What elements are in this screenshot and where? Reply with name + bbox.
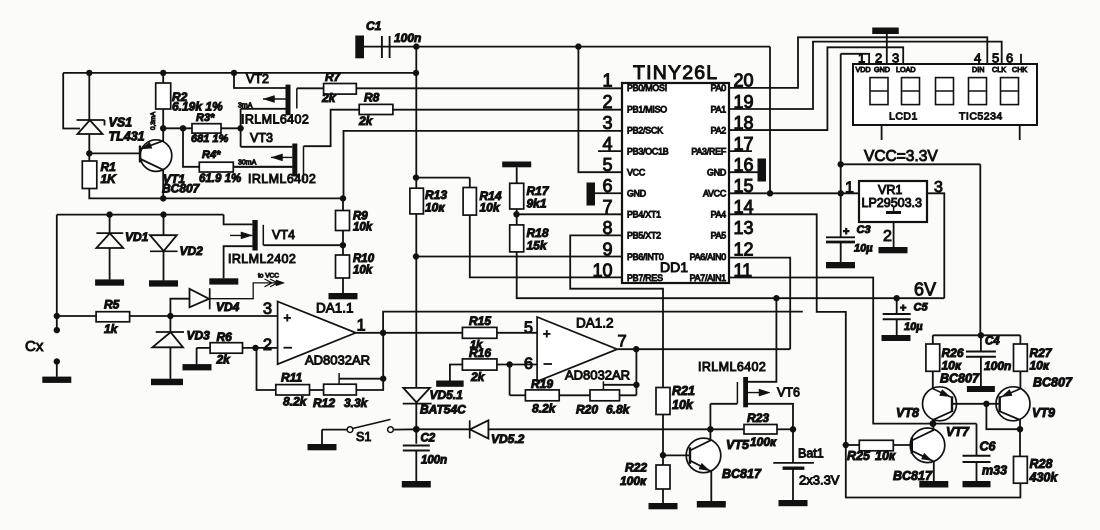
svg-text:9: 9 [602, 239, 612, 259]
svg-text:10к: 10к [875, 449, 896, 463]
svg-text:R25: R25 [847, 449, 871, 463]
svg-text:+: + [900, 303, 906, 315]
svg-text:VD5.1: VD5.1 [430, 388, 464, 402]
svg-text:VD5.2: VD5.2 [491, 432, 525, 446]
svg-text:PB0/MOSI: PB0/MOSI [627, 83, 667, 93]
svg-text:1k: 1k [104, 322, 119, 336]
svg-text:R22: R22 [625, 461, 647, 475]
svg-text:2x3.3V: 2x3.3V [799, 473, 840, 488]
svg-text:VDD: VDD [856, 65, 871, 74]
svg-text:2: 2 [263, 336, 272, 354]
svg-text:IRLML2402: IRLML2402 [228, 252, 296, 266]
svg-text:VT6: VT6 [777, 386, 800, 400]
svg-text:PB1/MISO: PB1/MISO [627, 104, 667, 114]
svg-text:VT8: VT8 [896, 406, 919, 420]
svg-text:VD3: VD3 [187, 329, 211, 343]
svg-text:C6: C6 [980, 440, 997, 454]
svg-text:10µ: 10µ [854, 243, 873, 255]
svg-text:100к: 100к [750, 435, 777, 449]
svg-text:VCC: VCC [627, 167, 646, 177]
svg-text:2k: 2k [321, 91, 337, 105]
svg-text:CLK: CLK [992, 65, 1006, 74]
svg-text:Cx: Cx [25, 338, 44, 355]
svg-text:VCC=3.3V: VCC=3.3V [864, 148, 938, 165]
svg-text:VS1: VS1 [109, 116, 133, 130]
svg-text:1: 1 [858, 51, 865, 66]
svg-text:C5: C5 [914, 302, 929, 314]
svg-text:Bat1: Bat1 [798, 447, 824, 461]
svg-text:VT9: VT9 [1032, 406, 1055, 420]
svg-text:30mA: 30mA [238, 160, 257, 167]
svg-text:R15: R15 [469, 314, 491, 328]
svg-text:R3*: R3* [196, 112, 215, 124]
svg-text:C3: C3 [857, 224, 871, 236]
svg-text:1: 1 [602, 71, 612, 91]
svg-text:+: + [843, 226, 849, 238]
svg-text:DIN: DIN [972, 65, 984, 74]
svg-text:10k: 10k [353, 265, 373, 277]
svg-text:2k: 2k [358, 114, 374, 128]
svg-text:LCD1: LCD1 [889, 111, 918, 123]
svg-text:2: 2 [602, 92, 612, 112]
svg-text:+: + [284, 310, 292, 325]
svg-text:PA7/AIN1: PA7/AIN1 [690, 273, 727, 283]
svg-text:8.2k: 8.2k [532, 402, 557, 416]
svg-text:TINY26L: TINY26L [633, 62, 718, 84]
svg-text:VD4: VD4 [216, 300, 240, 314]
svg-text:C4: C4 [985, 336, 1000, 348]
svg-text:3: 3 [602, 113, 612, 133]
svg-text:LP29503.3: LP29503.3 [862, 196, 923, 210]
svg-text:BC817: BC817 [893, 469, 933, 483]
svg-text:PA4: PA4 [711, 210, 727, 220]
svg-text:TIC5234: TIC5234 [959, 111, 1003, 123]
svg-text:VT7: VT7 [946, 425, 970, 439]
svg-text:6.8k: 6.8k [606, 403, 631, 417]
svg-text:DD1: DD1 [660, 259, 688, 275]
svg-text:TL431: TL431 [109, 130, 145, 144]
svg-text:VT5: VT5 [726, 438, 750, 452]
svg-text:IRLML6402: IRLML6402 [241, 113, 309, 127]
svg-text:100n: 100n [421, 455, 447, 467]
svg-text:BC807: BC807 [162, 182, 201, 196]
svg-text:CHK: CHK [1012, 65, 1027, 74]
svg-text:AVCC: AVCC [703, 189, 727, 199]
svg-text:R8: R8 [364, 91, 380, 105]
svg-text:10µ: 10µ [904, 321, 923, 333]
svg-text:PB4/XT1: PB4/XT1 [627, 210, 661, 220]
svg-text:BC817: BC817 [722, 467, 762, 481]
svg-text:100к: 100к [620, 474, 647, 488]
svg-text:10: 10 [592, 260, 612, 280]
svg-text:1: 1 [357, 317, 366, 335]
svg-text:m33: m33 [982, 464, 1007, 478]
svg-text:8.2k: 8.2k [283, 395, 308, 409]
svg-text:681 1%: 681 1% [191, 133, 229, 145]
svg-text:PB7/RES: PB7/RES [627, 273, 663, 283]
svg-text:+: + [543, 326, 551, 341]
svg-text:PB3/OC1B: PB3/OC1B [627, 146, 669, 156]
svg-text:8: 8 [602, 218, 612, 238]
svg-text:430k: 430k [1029, 471, 1059, 485]
svg-text:15k: 15k [527, 239, 548, 253]
svg-text:3mA: 3mA [238, 103, 253, 110]
svg-text:GND: GND [627, 189, 646, 199]
svg-text:R12: R12 [313, 396, 335, 410]
svg-text:R23: R23 [747, 411, 769, 425]
svg-text:R5: R5 [104, 298, 120, 312]
svg-text:10k: 10k [672, 398, 694, 412]
svg-text:GND: GND [707, 167, 726, 177]
svg-text:VR1: VR1 [878, 183, 902, 197]
svg-text:100n: 100n [394, 31, 421, 45]
svg-text:100n: 100n [984, 359, 1011, 373]
svg-text:2k: 2k [216, 353, 232, 367]
svg-text:VT2: VT2 [246, 72, 269, 86]
svg-text:IRLML6402: IRLML6402 [698, 360, 766, 374]
svg-text:4: 4 [974, 51, 981, 66]
svg-text:R6: R6 [217, 330, 233, 344]
svg-text:PA1: PA1 [711, 104, 727, 114]
svg-text:PA6/AIN0: PA6/AIN0 [690, 252, 727, 262]
svg-text:GND: GND [874, 65, 890, 74]
svg-text:7: 7 [602, 197, 612, 217]
svg-text:R21: R21 [672, 384, 695, 398]
svg-text:VT3: VT3 [250, 131, 273, 145]
svg-text:VT4: VT4 [272, 228, 295, 242]
svg-text:VD1: VD1 [125, 230, 149, 244]
svg-text:1: 1 [845, 180, 854, 197]
svg-text:2: 2 [883, 228, 892, 245]
svg-text:R28: R28 [1030, 457, 1053, 471]
svg-text:R11: R11 [281, 371, 302, 385]
svg-text:AD8032AR: AD8032AR [305, 353, 370, 368]
svg-text:2k: 2k [470, 370, 486, 384]
svg-text:R7: R7 [325, 70, 342, 84]
svg-text:3: 3 [263, 300, 272, 318]
svg-text:3: 3 [892, 51, 899, 66]
svg-text:61.9 1%: 61.9 1% [199, 173, 241, 185]
svg-text:PB6/INT0: PB6/INT0 [627, 252, 664, 262]
svg-text:12: 12 [734, 239, 754, 259]
svg-text:PA0: PA0 [711, 83, 727, 93]
svg-text:10к: 10к [942, 359, 962, 373]
svg-text:6: 6 [524, 355, 533, 373]
svg-text:R20: R20 [576, 403, 598, 417]
svg-text:BC807: BC807 [1033, 376, 1073, 390]
svg-text:10к: 10к [425, 201, 445, 215]
svg-text:10к: 10к [1030, 359, 1050, 373]
svg-text:1K: 1K [101, 172, 118, 186]
svg-text:5: 5 [524, 319, 533, 337]
svg-text:6V: 6V [914, 280, 936, 300]
svg-text:R19: R19 [531, 377, 553, 391]
svg-text:9k1: 9k1 [527, 197, 547, 211]
svg-text:AD8032AR: AD8032AR [565, 368, 630, 383]
svg-text:10k: 10k [480, 201, 501, 215]
svg-text:BAT54C: BAT54C [420, 403, 466, 417]
svg-text:PA2: PA2 [711, 125, 727, 135]
svg-text:DA1.1: DA1.1 [316, 301, 354, 316]
svg-text:3.3k: 3.3k [344, 396, 369, 410]
svg-text:DA1.2: DA1.2 [576, 316, 614, 331]
svg-text:13: 13 [734, 218, 754, 238]
svg-text:6: 6 [1006, 51, 1013, 66]
svg-text:R16: R16 [469, 346, 491, 360]
svg-text:7: 7 [618, 333, 627, 351]
svg-text:PA3/REF: PA3/REF [691, 146, 726, 156]
svg-text:S1: S1 [356, 430, 371, 444]
svg-text:2: 2 [875, 51, 882, 66]
svg-text:C2: C2 [421, 433, 436, 445]
svg-text:PA5: PA5 [711, 231, 727, 241]
svg-text:R4*: R4* [202, 149, 221, 161]
svg-text:PB2/SCK: PB2/SCK [627, 125, 663, 135]
svg-text:C1: C1 [366, 19, 382, 33]
svg-text:LOAD: LOAD [896, 65, 916, 74]
svg-text:10k: 10k [353, 222, 373, 234]
svg-text:5: 5 [992, 51, 999, 66]
svg-text:to VCC: to VCC [258, 273, 279, 280]
svg-text:R10: R10 [353, 253, 375, 265]
svg-text:BC807: BC807 [940, 372, 980, 386]
svg-text:0,3mA: 0,3mA [150, 111, 157, 130]
svg-text:IRLML6402: IRLML6402 [248, 172, 316, 186]
svg-text:VD2: VD2 [180, 244, 204, 258]
svg-text:PB5/XT2: PB5/XT2 [627, 231, 661, 241]
